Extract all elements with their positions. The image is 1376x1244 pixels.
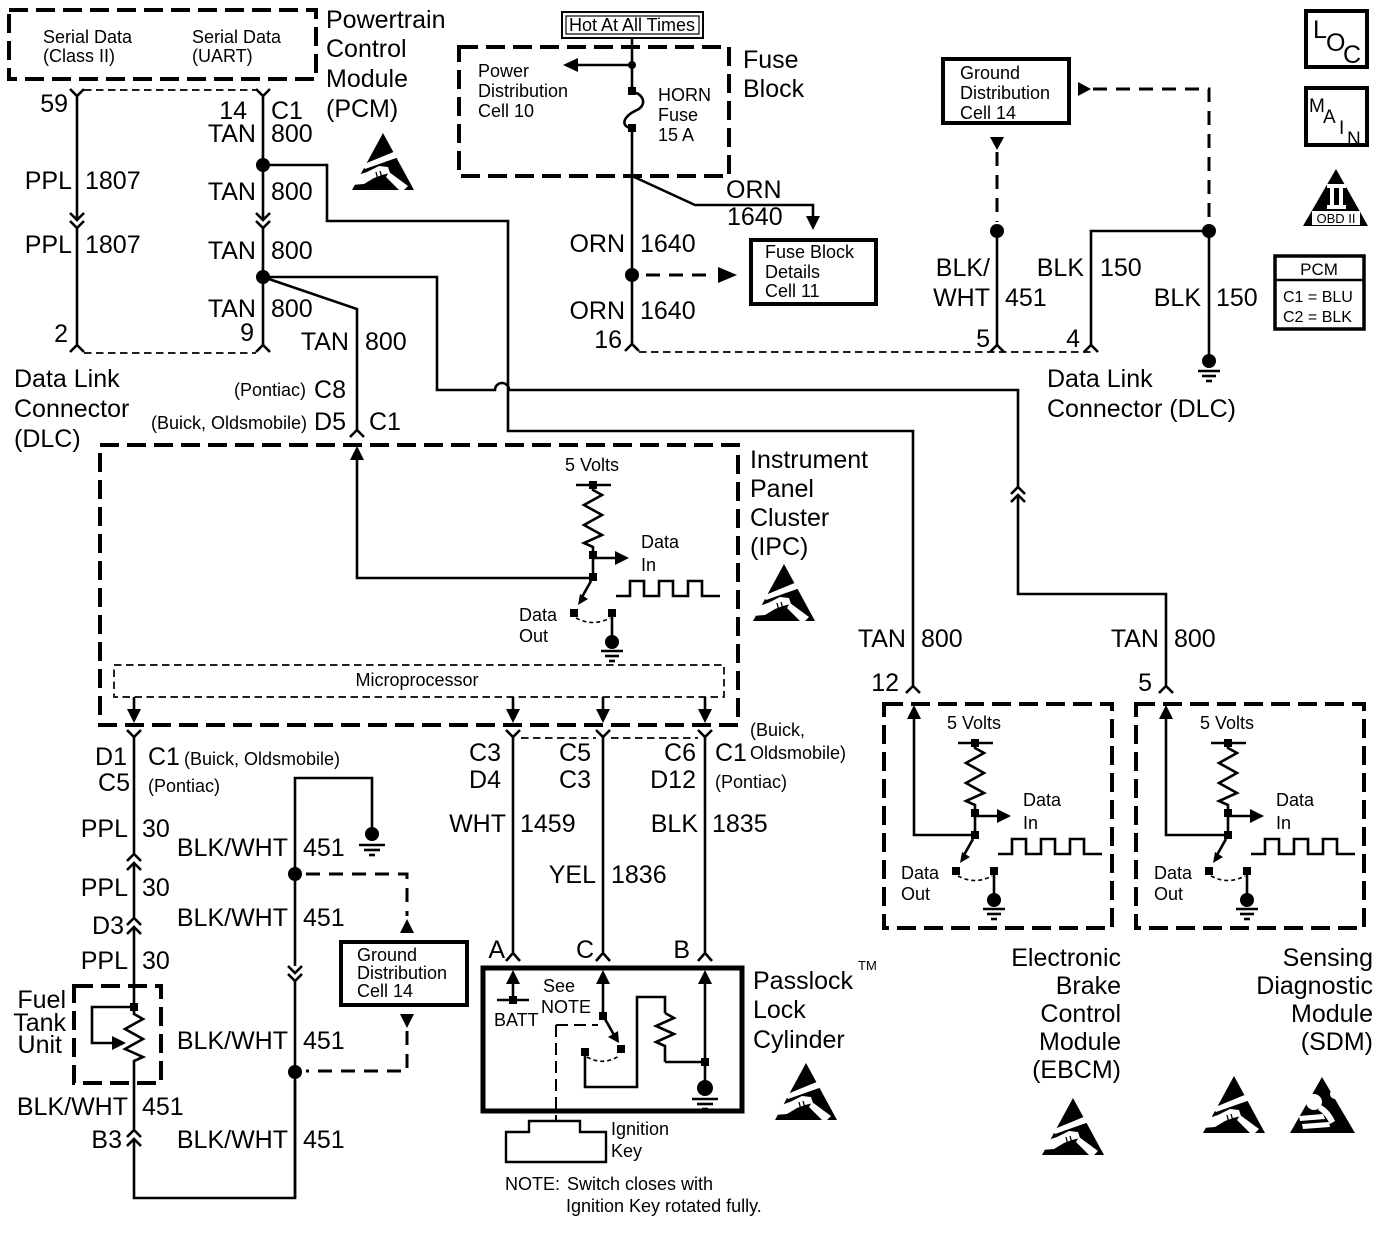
break chevrons bus xyxy=(288,966,302,981)
wire WHT 1459 xyxy=(512,737,515,952)
wire TAN 800 segment 2 xyxy=(262,228,265,345)
svg-text:Microprocessor: Microprocessor xyxy=(355,670,478,690)
see note dashed line xyxy=(556,1025,598,1121)
connector fork C8/D5 xyxy=(350,430,364,437)
svg-text:ORN: ORN xyxy=(569,230,625,258)
svg-text:C5: C5 xyxy=(559,739,591,767)
svg-text:L: L xyxy=(1313,16,1327,44)
svg-text:15 A: 15 A xyxy=(658,125,694,145)
microprocessor box xyxy=(114,665,724,697)
svg-text:Connector: Connector xyxy=(14,395,129,423)
svg-text:TAN: TAN xyxy=(1111,625,1159,653)
svg-text:ORN: ORN xyxy=(726,176,782,204)
ground symbol DLC xyxy=(1202,354,1216,368)
wire B3 to bus xyxy=(134,1081,295,1198)
svg-text:B3: B3 xyxy=(91,1126,122,1154)
connector fork D1 xyxy=(127,730,141,737)
svg-text:Powertrain: Powertrain xyxy=(326,6,446,34)
svg-text:Fuse: Fuse xyxy=(743,46,799,74)
wire PPL 30 upper xyxy=(133,737,136,853)
svg-text:Cell 10: Cell 10 xyxy=(478,101,534,121)
svg-text:Module: Module xyxy=(326,65,408,93)
svg-text:Distribution: Distribution xyxy=(357,963,447,983)
svg-text:16: 16 xyxy=(594,326,622,354)
fuse block dashed box xyxy=(459,47,729,176)
svg-text:A: A xyxy=(1323,107,1336,128)
junction node BLK 150 xyxy=(1202,224,1216,238)
svg-text:(Buick,: (Buick, xyxy=(750,720,805,740)
svg-text:D1: D1 xyxy=(95,743,127,771)
connector fork C5 xyxy=(596,730,610,737)
svg-text:4: 4 xyxy=(1066,325,1080,353)
connector fork pin 9 xyxy=(256,345,270,352)
svg-text:800: 800 xyxy=(365,328,407,356)
svg-text:451: 451 xyxy=(1005,284,1047,312)
svg-text:Control: Control xyxy=(326,35,407,63)
connector fork pin 5 xyxy=(990,345,1004,352)
svg-text:OBD II: OBD II xyxy=(1316,211,1355,226)
svg-text:PPL: PPL xyxy=(81,947,128,975)
svg-text:Ignition Key rotated fully.: Ignition Key rotated fully. xyxy=(566,1196,762,1216)
svg-text:1835: 1835 xyxy=(712,810,768,838)
branch diagonal to fuse block details xyxy=(632,176,813,218)
entry arrow SDM xyxy=(1159,705,1173,719)
svg-text:C1: C1 xyxy=(369,408,401,436)
svg-text:Control: Control xyxy=(1040,1000,1121,1028)
svg-text:451: 451 xyxy=(142,1093,184,1121)
svg-text:Block: Block xyxy=(743,75,805,103)
svg-text:Cell 11: Cell 11 xyxy=(765,281,820,301)
junction node J2 xyxy=(256,270,270,284)
passlock resistor xyxy=(656,1013,674,1062)
svg-text:Module: Module xyxy=(1291,1000,1373,1028)
wire PPL 30 lower xyxy=(133,927,136,1012)
svg-text:B: B xyxy=(673,936,690,964)
svg-text:TAN: TAN xyxy=(858,625,906,653)
fuse block details box xyxy=(751,240,876,304)
PCM legend box xyxy=(1275,256,1364,329)
svg-text:451: 451 xyxy=(303,1126,345,1154)
svg-text:Ignition: Ignition xyxy=(611,1119,669,1139)
svg-text:30: 30 xyxy=(142,815,170,843)
svg-text:(Pontiac): (Pontiac) xyxy=(715,772,787,792)
svg-text:(IPC): (IPC) xyxy=(750,533,808,561)
svg-text:PPL: PPL xyxy=(81,815,128,843)
svg-text:(Class II): (Class II) xyxy=(43,46,115,66)
svg-text:5: 5 xyxy=(1138,669,1152,697)
wire from left contact to resistor branch xyxy=(585,997,665,1087)
svg-text:800: 800 xyxy=(921,625,963,653)
break chevrons TAN wire xyxy=(256,213,270,228)
dashed arrow to fuse block details xyxy=(646,274,712,277)
DLC dashed line right xyxy=(639,351,1091,353)
SRS symbol SDM xyxy=(1290,1077,1355,1133)
svg-text:C1 = BLU: C1 = BLU xyxy=(1283,289,1353,306)
fuel sender wiper xyxy=(92,1007,134,1043)
svg-text:Fuse: Fuse xyxy=(658,105,698,125)
svg-text:Key: Key xyxy=(611,1141,642,1161)
svg-text:(DLC): (DLC) xyxy=(14,425,81,453)
Hot At All Times box xyxy=(562,12,703,38)
SDM box xyxy=(1136,704,1364,928)
connector fork pin 59 xyxy=(70,89,84,96)
ground distribution cell 14 box top xyxy=(943,59,1069,123)
dashed from ground cell to bus xyxy=(306,1031,407,1071)
ESD symbol passlock xyxy=(775,1063,837,1120)
junction square resistor to B wire xyxy=(665,1061,705,1064)
B entry arrow and ground xyxy=(698,970,712,984)
connector fork pin 16 xyxy=(625,344,639,351)
EBCM serial data interface xyxy=(901,713,1102,919)
svg-text:Hot At All Times: Hot At All Times xyxy=(569,15,695,35)
IPC serial data interface xyxy=(519,455,720,661)
ignition key symbol xyxy=(506,1121,606,1162)
svg-text:800: 800 xyxy=(1174,625,1216,653)
svg-text:Data Link: Data Link xyxy=(1047,365,1153,393)
svg-text:9: 9 xyxy=(240,319,254,347)
svg-text:BLK/WHT: BLK/WHT xyxy=(177,1126,288,1154)
svg-text:Power: Power xyxy=(478,61,529,81)
svg-text:Data Link: Data Link xyxy=(14,365,120,393)
LOC box xyxy=(1306,11,1367,67)
ground distribution cell 14 box (lower) xyxy=(341,942,467,1005)
connector fork pin 2 xyxy=(70,345,84,352)
arrow to power distribution xyxy=(575,64,632,67)
svg-text:BLK: BLK xyxy=(1154,284,1202,312)
wire from J1 to EBCM xyxy=(263,165,913,685)
svg-text:BLK: BLK xyxy=(651,810,699,838)
svg-text:(Pontiac): (Pontiac) xyxy=(148,776,220,796)
svg-text:Electronic: Electronic xyxy=(1011,944,1121,972)
entry arrow into IPC xyxy=(350,446,364,460)
svg-text:BLK/WHT: BLK/WHT xyxy=(177,834,288,862)
dashed coupling arc xyxy=(587,1056,619,1061)
svg-text:451: 451 xyxy=(303,904,345,932)
svg-text:Diagnostic: Diagnostic xyxy=(1256,972,1373,1000)
arrow right from box xyxy=(1078,82,1091,96)
wire PPL 1807 lower xyxy=(76,228,79,345)
svg-text:Cluster: Cluster xyxy=(750,504,829,532)
svg-text:TAN: TAN xyxy=(208,237,256,265)
svg-text:(UART): (UART) xyxy=(192,46,253,66)
svg-text:Sensing: Sensing xyxy=(1283,944,1373,972)
passlock lock cylinder box xyxy=(483,968,742,1111)
switch wiper xyxy=(605,1019,614,1035)
svg-text:PPL: PPL xyxy=(25,167,72,195)
svg-text:C2 = BLK: C2 = BLK xyxy=(1283,309,1352,326)
svg-text:BLK/: BLK/ xyxy=(936,254,990,282)
wire TAN 800 segment 1 xyxy=(262,96,265,220)
svg-text:1640: 1640 xyxy=(727,203,783,231)
svg-text:WHT: WHT xyxy=(449,810,506,838)
fuel sender resistor xyxy=(130,1003,138,1011)
svg-text:Oldsmobile): Oldsmobile) xyxy=(750,743,846,763)
svg-text:NOTE: NOTE xyxy=(541,997,591,1017)
svg-text:C1: C1 xyxy=(148,743,180,771)
connector fork C3 xyxy=(506,730,520,737)
svg-text:BLK/WHT: BLK/WHT xyxy=(17,1093,128,1121)
PCM connector dashed line top xyxy=(84,89,256,91)
svg-text:YEL: YEL xyxy=(549,861,596,889)
entry arrow EBCM xyxy=(907,705,921,719)
svg-text:(EBCM): (EBCM) xyxy=(1032,1056,1121,1084)
svg-text:Connector (DLC): Connector (DLC) xyxy=(1047,395,1236,423)
connector fork pin 5 SDM xyxy=(1159,686,1173,693)
svg-text:PPL: PPL xyxy=(81,874,128,902)
wire diagonal from J2 to IPC C1 xyxy=(263,277,357,430)
svg-text:BLK: BLK xyxy=(1037,254,1085,282)
svg-text:Switch closes with: Switch closes with xyxy=(567,1174,713,1194)
svg-text:A: A xyxy=(488,936,505,964)
DLC connector dashed line bottom left xyxy=(84,352,256,354)
svg-text:1640: 1640 xyxy=(640,230,696,258)
svg-text:(SDM): (SDM) xyxy=(1301,1028,1373,1056)
svg-text:Fuse Block: Fuse Block xyxy=(765,242,855,262)
svg-text:I: I xyxy=(1339,118,1344,139)
dashed connector line C3-C6 xyxy=(521,737,596,739)
wire ORN below fuse xyxy=(631,132,634,344)
svg-text:800: 800 xyxy=(271,178,313,206)
svg-text:Instrument: Instrument xyxy=(750,446,868,474)
micro arrow C5 xyxy=(602,697,605,712)
break chevrons PPL wire xyxy=(70,213,84,228)
svg-text:TM: TM xyxy=(858,958,877,973)
svg-text:Serial Data: Serial Data xyxy=(43,27,133,47)
svg-text:Unit: Unit xyxy=(18,1031,63,1059)
junction node J1 xyxy=(256,158,270,172)
svg-text:451: 451 xyxy=(303,834,345,862)
svg-text:Panel: Panel xyxy=(750,475,814,503)
wire from hot box into fuse xyxy=(631,38,634,87)
svg-text:150: 150 xyxy=(1100,254,1142,282)
svg-text:BLK/WHT: BLK/WHT xyxy=(177,1027,288,1055)
junction node BLK/WHT xyxy=(990,224,1004,238)
arrow up to ground cell xyxy=(400,919,414,933)
svg-text:30: 30 xyxy=(142,947,170,975)
svg-text:Distribution: Distribution xyxy=(960,83,1050,103)
wire BLK/WHT 451 to pin 5 xyxy=(996,231,999,345)
svg-text:N: N xyxy=(1347,129,1361,150)
svg-text:Ground: Ground xyxy=(357,945,417,965)
connector fork pin 12 xyxy=(906,686,920,693)
svg-text:TAN: TAN xyxy=(208,120,256,148)
svg-text:Module: Module xyxy=(1039,1028,1121,1056)
svg-text:C8: C8 xyxy=(314,376,346,404)
wire BLK 150 to ground xyxy=(1208,231,1211,355)
svg-text:Cell 14: Cell 14 xyxy=(960,103,1016,123)
arrow down from ground cell xyxy=(400,1014,414,1028)
svg-text:Ground: Ground xyxy=(960,63,1020,83)
svg-text:Brake: Brake xyxy=(1056,972,1121,1000)
wire BLK 150 to pin 4 xyxy=(1091,231,1209,345)
svg-text:C3: C3 xyxy=(469,739,501,767)
svg-text:30: 30 xyxy=(142,874,170,902)
svg-text:1459: 1459 xyxy=(520,810,576,838)
junction node ORN xyxy=(625,268,639,282)
svg-text:D12: D12 xyxy=(650,766,696,794)
svg-text:1640: 1640 xyxy=(640,297,696,325)
svg-text:1807: 1807 xyxy=(85,231,141,259)
wire continued to SDM xyxy=(1018,495,1166,685)
svg-text:C: C xyxy=(576,936,594,964)
connector fork pin 14 xyxy=(256,89,270,96)
wire BLK/WHT 451 below tank xyxy=(133,1083,136,1129)
break chevrons PPL 30 xyxy=(127,854,141,870)
svg-text:BATT: BATT xyxy=(494,1010,539,1030)
svg-text:TAN: TAN xyxy=(301,328,349,356)
svg-text:HORN: HORN xyxy=(658,85,711,105)
svg-text:1807: 1807 xyxy=(85,167,141,195)
svg-text:See: See xyxy=(543,976,575,996)
switch contacts xyxy=(617,1045,625,1053)
fuse HORN 15A xyxy=(628,87,636,95)
svg-text:C3: C3 xyxy=(559,766,591,794)
svg-text:PPL: PPL xyxy=(25,231,72,259)
svg-text:C5: C5 xyxy=(98,769,130,797)
break chevrons SDM wire xyxy=(1011,487,1025,502)
ESD symbol PCM xyxy=(352,133,414,190)
dashed line down xyxy=(996,152,999,222)
bus wire lower xyxy=(294,981,297,1198)
ESD symbol IPC xyxy=(753,564,815,621)
micro arrow C3 xyxy=(512,697,515,712)
svg-text:150: 150 xyxy=(1216,284,1258,312)
svg-text:C: C xyxy=(1343,41,1361,69)
svg-text:ORN: ORN xyxy=(569,297,625,325)
svg-text:451: 451 xyxy=(303,1027,345,1055)
svg-text:WHT: WHT xyxy=(933,284,990,312)
connector fork pin 4 xyxy=(1084,345,1098,352)
wire PPL 1807 upper xyxy=(76,96,79,220)
svg-text:800: 800 xyxy=(271,120,313,148)
svg-text:D3: D3 xyxy=(92,912,124,940)
micro arrow C6 xyxy=(704,697,707,712)
svg-text:(PCM): (PCM) xyxy=(326,95,398,123)
connector fork C6 xyxy=(698,730,712,737)
connector D3 chevrons xyxy=(127,918,141,934)
OBD II triangle xyxy=(1303,169,1368,226)
bus wire upper-mid xyxy=(294,874,297,966)
wire from J2 to SDM (with hop) xyxy=(263,277,1018,487)
svg-text:PCM: PCM xyxy=(1300,260,1338,279)
connector B3 chevrons xyxy=(127,1130,141,1146)
junction node bus upper xyxy=(288,867,302,881)
svg-text:C1: C1 xyxy=(715,739,747,767)
svg-text:Details: Details xyxy=(765,262,820,282)
svg-text:(Pontiac): (Pontiac) xyxy=(234,380,306,400)
svg-text:800: 800 xyxy=(271,237,313,265)
ESD symbol EBCM xyxy=(1042,1098,1104,1155)
svg-text:800: 800 xyxy=(271,295,313,323)
junction node fuse top xyxy=(628,61,636,69)
svg-text:Lock: Lock xyxy=(753,996,806,1024)
svg-text:59: 59 xyxy=(40,90,68,118)
serial data box xyxy=(9,10,316,79)
dashed to ground cell (upper) xyxy=(306,874,407,916)
SDM serial data interface xyxy=(1154,713,1355,919)
dashed line to BLK junction xyxy=(1093,89,1209,222)
svg-text:D4: D4 xyxy=(469,766,501,794)
IPC box xyxy=(100,445,738,725)
micro arrow D1 xyxy=(133,697,136,712)
junction node bus lower xyxy=(288,1065,302,1079)
svg-text:Passlock: Passlock xyxy=(753,967,854,995)
wire PPL 30 mid xyxy=(133,863,136,917)
BATT entry arrow xyxy=(506,970,520,984)
svg-text:TAN: TAN xyxy=(208,178,256,206)
ground symbol bus xyxy=(365,827,379,841)
svg-text:C6: C6 xyxy=(664,739,696,767)
svg-text:Cylinder: Cylinder xyxy=(753,1026,845,1054)
EBCM box xyxy=(884,704,1112,928)
svg-text:Cell 14: Cell 14 xyxy=(357,981,413,1001)
svg-text:(Buick, Oldsmobile): (Buick, Oldsmobile) xyxy=(184,749,340,769)
fuel tank unit box xyxy=(74,986,161,1083)
arrow down from box xyxy=(990,137,1004,150)
ESD symbol SDM xyxy=(1203,1076,1265,1133)
svg-text:2: 2 xyxy=(54,320,68,348)
wire BLK 1835 xyxy=(704,737,707,952)
svg-text:12: 12 xyxy=(871,669,899,697)
MAIN box xyxy=(1306,88,1367,145)
svg-text:(Buick, Oldsmobile): (Buick, Oldsmobile) xyxy=(151,413,307,433)
svg-text:BLK/WHT: BLK/WHT xyxy=(177,904,288,932)
svg-text:NOTE:: NOTE: xyxy=(505,1174,560,1194)
svg-text:Serial Data: Serial Data xyxy=(192,27,282,47)
wire YEL 1836 xyxy=(602,737,605,952)
svg-text:D5: D5 xyxy=(314,408,346,436)
svg-text:5: 5 xyxy=(976,325,990,353)
bus top to ground xyxy=(295,778,372,874)
svg-text:Distribution: Distribution xyxy=(478,81,568,101)
ground symbol passlock xyxy=(697,1080,713,1096)
C entry arrow and switch xyxy=(596,970,610,984)
svg-text:1836: 1836 xyxy=(611,861,667,889)
